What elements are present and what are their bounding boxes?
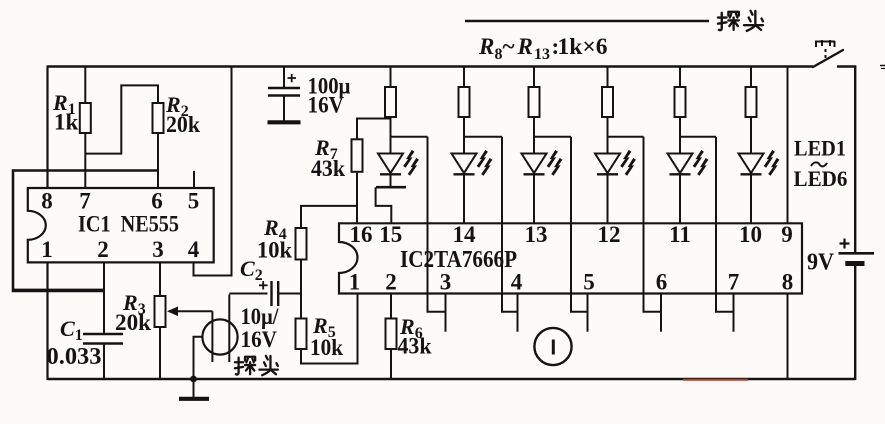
svg-text:IC1 NE555: IC1 NE555 — [78, 212, 179, 237]
resistor R5 — [296, 319, 307, 350]
svg-text:43k: 43k — [398, 334, 432, 359]
wire divider/sense line 2 through IC2 — [501, 137, 503, 294]
wire R5 bottom to pin1 of IC2 — [301, 294, 358, 364]
capacitor C2 — [229, 293, 267, 295]
wire jog to pin stub 2 — [502, 294, 518, 312]
wire LED3 cathode to IC2 — [533, 174, 535, 223]
svg-text:8: 8 — [782, 270, 794, 295]
wire divider/sense line 5 through IC2 — [715, 137, 717, 294]
svg-text:4: 4 — [511, 270, 523, 295]
wire pin6 to pin2 link — [13, 171, 158, 292]
svg-text:6: 6 — [656, 270, 668, 295]
scan mark — [880, 65, 885, 67]
wire mic case to ground — [194, 337, 203, 379]
resistor R11 — [607, 66, 609, 88]
svg-text:1: 1 — [41, 237, 53, 262]
resistor R8 — [390, 66, 392, 88]
svg-text:2: 2 — [385, 270, 397, 295]
wire R1 bottom to pin7 — [84, 133, 86, 188]
wire jog to pin stub 1 — [428, 294, 446, 312]
wire LED1 anode bracket — [391, 136, 428, 138]
resistor R4 — [296, 228, 307, 260]
scan artifact red line — [683, 379, 748, 381]
battery 9V — [839, 252, 875, 255]
resistor R10 — [533, 66, 535, 88]
junction dot — [190, 376, 197, 383]
resistor R13 — [750, 66, 752, 88]
svg-text:9V: 9V — [807, 250, 835, 276]
wire open stub below pin — [517, 294, 519, 332]
wire LED6 cathode to IC2 — [750, 174, 752, 223]
svg-text:R: R — [478, 34, 494, 59]
wire jog to pin stub 3 — [571, 294, 588, 312]
wire right border (bottom) — [854, 264, 856, 381]
svg-text:5: 5 — [583, 270, 595, 295]
svg-text:1: 1 — [349, 270, 361, 295]
wire LED4 anode bracket — [608, 136, 644, 138]
svg-text:9: 9 — [781, 222, 793, 247]
resistor R1 — [84, 66, 86, 104]
wire LED2 anode bracket — [464, 136, 502, 138]
svg-text:10: 10 — [739, 222, 762, 247]
svg-text:4: 4 — [188, 237, 200, 262]
resistor R7 — [352, 139, 363, 172]
wire divider/sense line 3 through IC2 — [570, 137, 572, 294]
svg-text:2: 2 — [97, 237, 109, 262]
LED LED6 — [739, 154, 764, 174]
svg-text:7: 7 — [728, 270, 740, 295]
potentiometer R3 — [155, 296, 166, 327]
wire R7 top to LED1 anode column — [357, 119, 391, 140]
capacitor 100µ 16V — [283, 66, 285, 89]
svg-text:13: 13 — [525, 222, 548, 247]
wire LED5 anode bracket — [680, 136, 716, 138]
resistor R2 — [153, 103, 164, 133]
svg-text:R: R — [517, 34, 533, 59]
svg-text:10k: 10k — [257, 238, 292, 263]
wire pin3 down — [159, 262, 161, 296]
microphone probe MIC — [202, 319, 237, 354]
wire pin8 IC2 to bottom rail — [787, 294, 789, 380]
wire R4-R5 — [300, 260, 302, 319]
wire LED4 cathode to IC2 — [607, 174, 609, 223]
label 探头 (probe) at mic — [235, 357, 255, 375]
wire top supply rail — [48, 65, 814, 68]
marker circled 1 — [534, 328, 571, 365]
wire pin4 reset to top rail — [194, 67, 232, 276]
svg-text:LED6: LED6 — [794, 166, 848, 191]
svg-text:10k: 10k — [310, 335, 343, 360]
svg-text:8: 8 — [41, 189, 53, 214]
wire pin1 to bottom rail — [46, 262, 48, 380]
wire open stub below pin — [445, 294, 447, 332]
svg-text:43k: 43k — [311, 156, 345, 181]
wire open stub below pin — [587, 294, 589, 332]
resistor R12 — [679, 66, 681, 88]
ground bar for 100µ — [268, 120, 301, 124]
wire pin8 to top rail (left border) — [46, 66, 48, 189]
wire bottom ground rail — [48, 378, 856, 381]
wire LED2 cathode to IC2 — [463, 174, 465, 223]
svg-text:7: 7 — [79, 189, 91, 214]
wire R4 top to pin16 node — [301, 206, 357, 228]
svg-text:1k×6: 1k×6 — [558, 34, 608, 59]
wire right border (top) — [854, 66, 856, 253]
wire pin9 to top rail — [787, 66, 789, 224]
LED LED1 — [378, 154, 403, 174]
svg-text:5: 5 — [188, 189, 200, 214]
wire pin2 IC2 to R6 — [390, 294, 392, 319]
svg-text:16: 16 — [350, 222, 373, 247]
svg-text:IC2TA7666P: IC2TA7666P — [400, 247, 517, 273]
wire divider/sense line 4 through IC2 — [643, 137, 645, 294]
IC2 TA7666P body — [339, 223, 802, 293]
svg-text:3: 3 — [440, 270, 452, 295]
svg-text:8: 8 — [495, 46, 503, 63]
wire jog to pin stub 5 — [716, 294, 734, 312]
svg-text:15: 15 — [379, 222, 402, 247]
svg-text:6: 6 — [151, 189, 163, 214]
wire pin5 stub — [193, 171, 195, 188]
svg-text:LED1: LED1 — [794, 136, 846, 161]
wire pin2 down — [103, 262, 105, 334]
svg-text:0.033: 0.033 — [47, 344, 102, 370]
svg-text:10µ/: 10µ/ — [241, 304, 280, 329]
switch S (power switch) — [813, 50, 843, 67]
svg-text:1k: 1k — [54, 110, 79, 135]
svg-text:14: 14 — [453, 222, 477, 247]
LED LED4 — [595, 154, 620, 174]
wire jog to pin stub 4 — [644, 294, 662, 312]
LED LED2 — [452, 154, 477, 174]
label 探头 (probe) top right — [718, 12, 739, 30]
resistor R6 — [386, 319, 397, 350]
LED LED5 — [668, 154, 693, 174]
wire LED5 cathode to IC2 — [679, 174, 681, 223]
wire probe test lead line — [465, 20, 709, 23]
svg-text:16V: 16V — [241, 327, 278, 352]
resistor R9 — [463, 66, 465, 88]
wire R2 bottom to pin6 — [157, 133, 159, 188]
svg-text:20k: 20k — [166, 112, 200, 137]
wire open stub below pin — [733, 294, 735, 332]
wire R7 bottom to pin16 — [356, 172, 358, 224]
svg-text:3: 3 — [152, 237, 164, 262]
svg-text:13: 13 — [534, 46, 550, 63]
svg-text:20k: 20k — [115, 310, 151, 335]
svg-text:~: ~ — [503, 34, 515, 59]
svg-text:12: 12 — [598, 222, 621, 247]
svg-text:16V: 16V — [308, 93, 345, 118]
wire LED1 cathode jog to pin15 — [390, 174, 392, 186]
op-amp/timer IC1 NE555 body — [28, 188, 214, 262]
wire LED3 anode bracket — [534, 136, 571, 138]
capacitor C1 — [83, 333, 123, 335]
LED LED3 — [522, 154, 547, 174]
ground symbol — [193, 379, 195, 398]
R3 wiper arrow — [169, 310, 213, 312]
wire open stub below pin — [660, 294, 662, 332]
wire R2 top bend to pin7 — [85, 85, 158, 153]
wire divider/sense line 1 through IC2 — [427, 137, 429, 294]
svg-text:11: 11 — [669, 222, 691, 247]
